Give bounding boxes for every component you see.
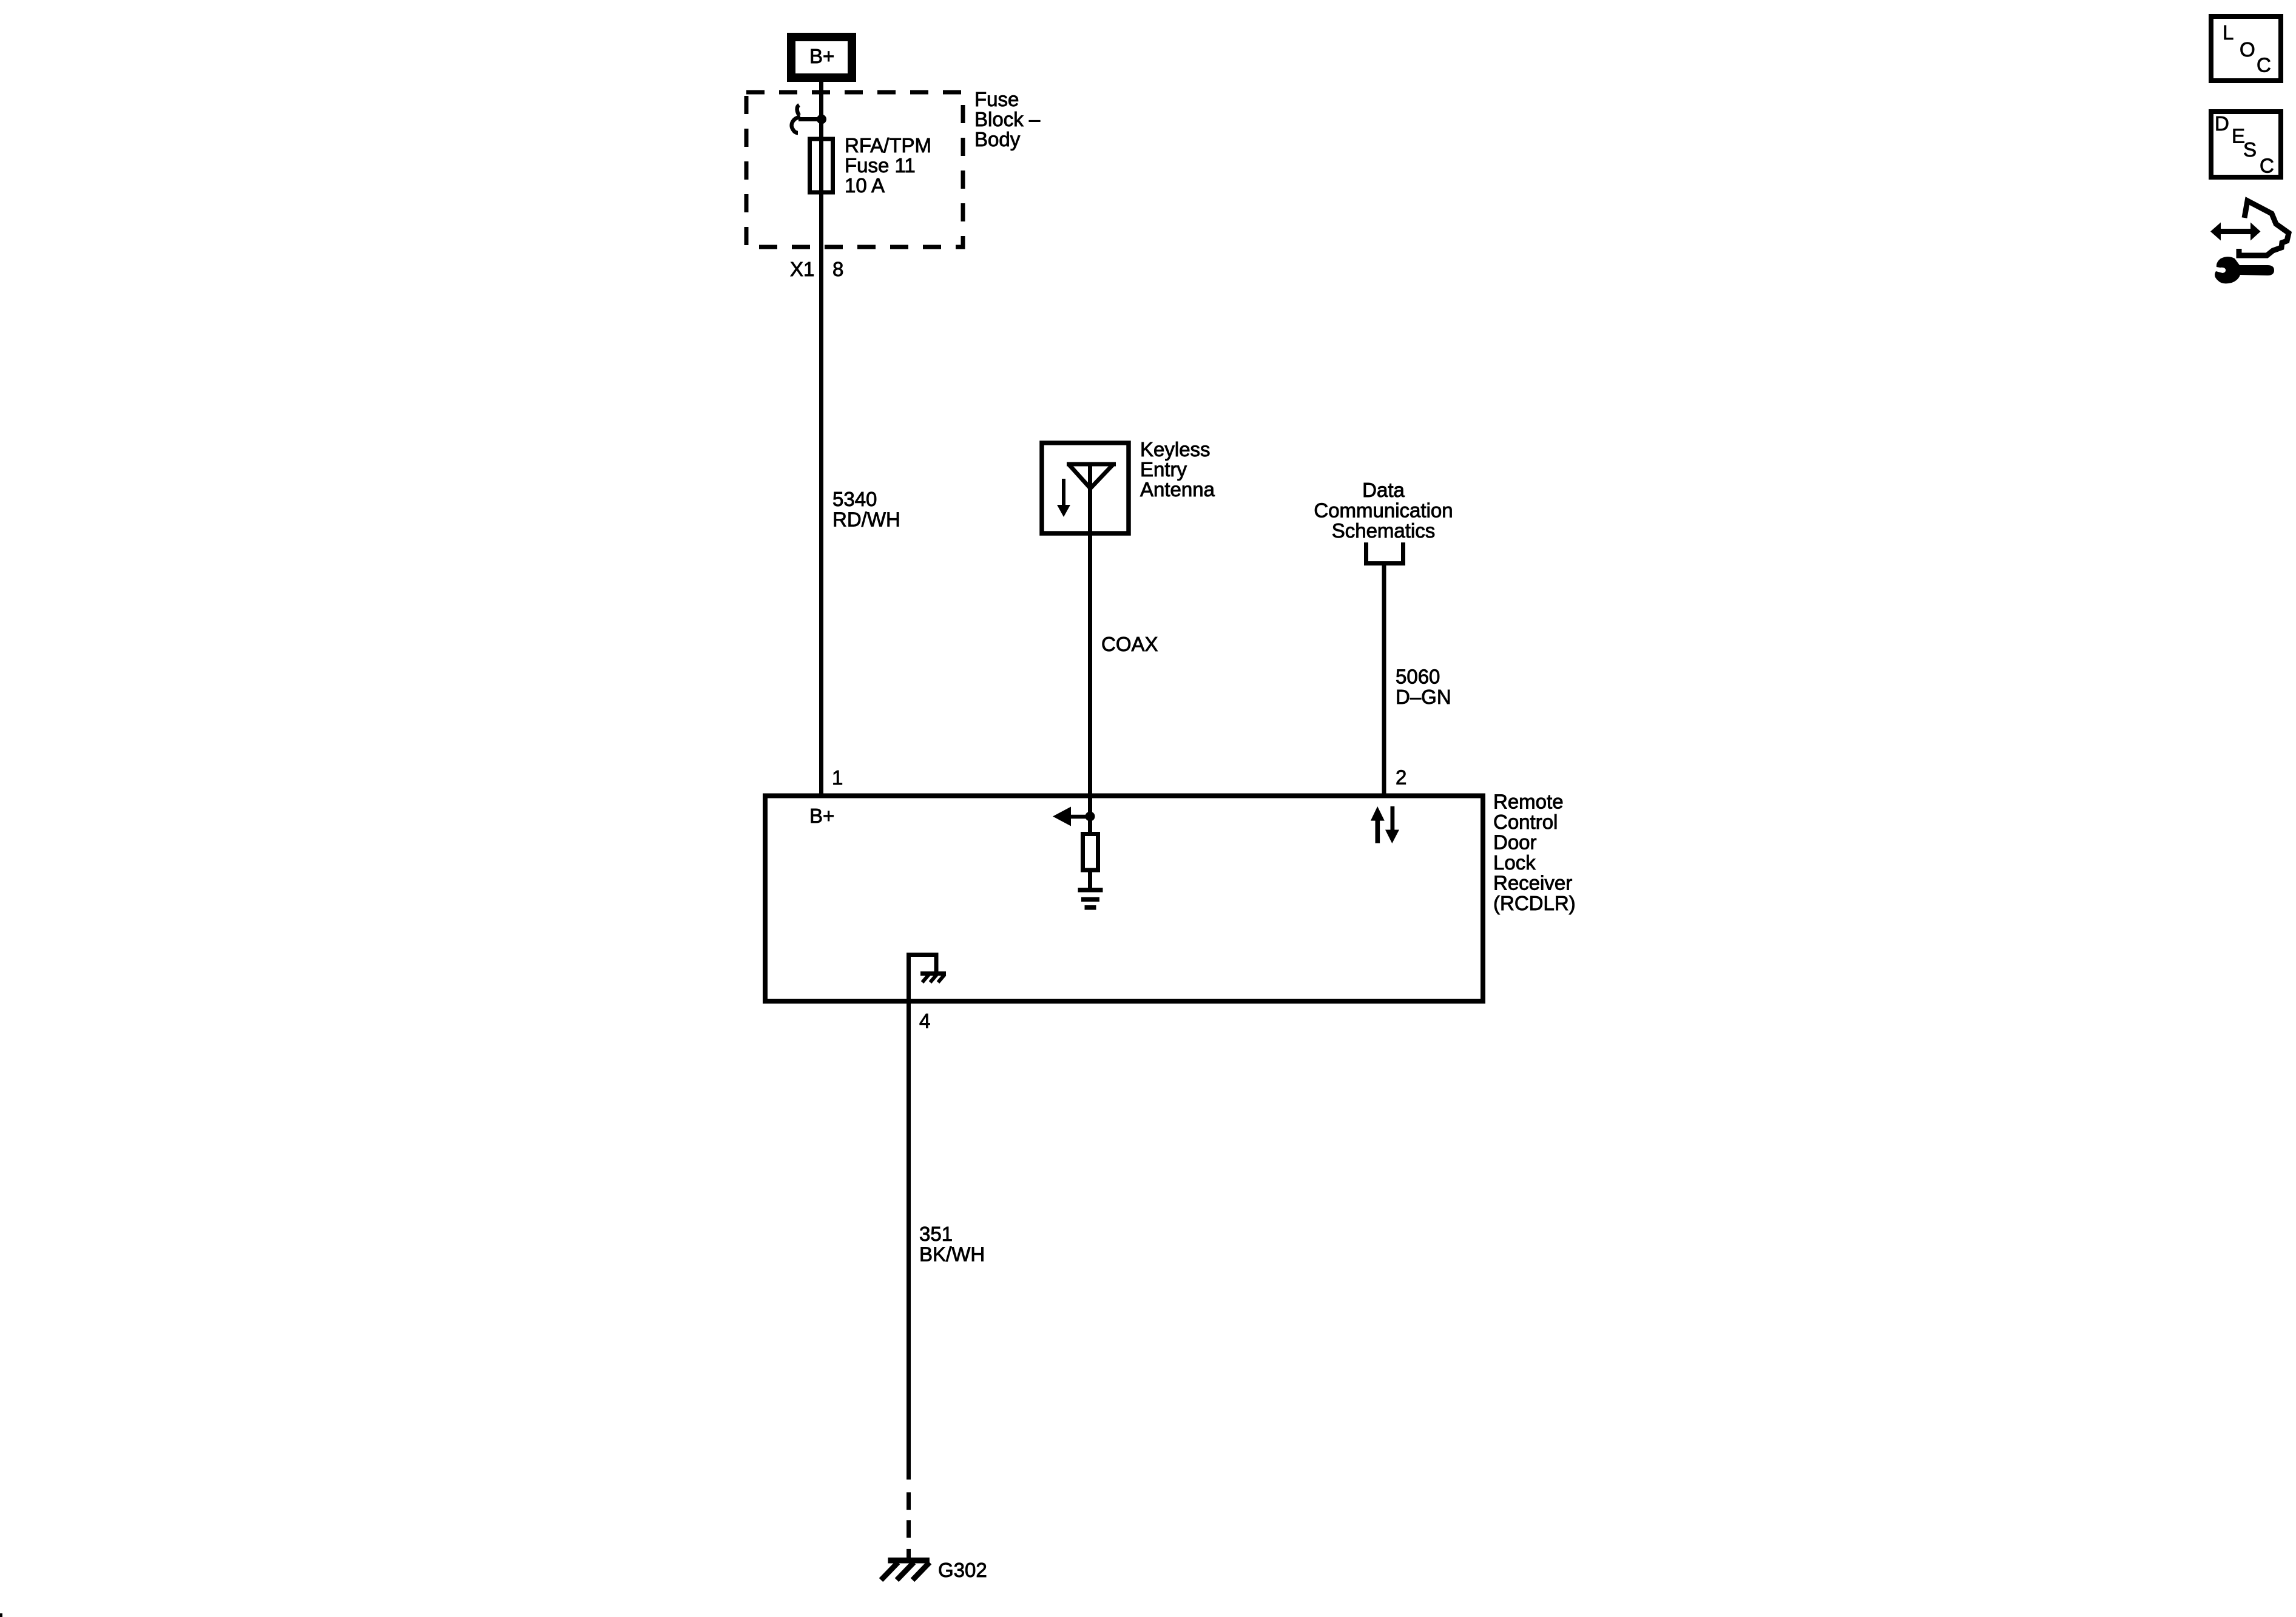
svg-text:B+: B+ bbox=[809, 45, 834, 67]
wire 5060 D-GN bbox=[1382, 563, 1386, 795]
svg-text:D: D bbox=[2215, 112, 2229, 135]
DESC reference box bbox=[2211, 112, 2281, 177]
signal ground internal bbox=[1078, 888, 1103, 910]
svg-text:Control: Control bbox=[1493, 811, 1558, 833]
fuse clip hook bbox=[792, 105, 800, 133]
fuse block label bbox=[974, 88, 1041, 150]
svg-text:C: C bbox=[2260, 155, 2274, 177]
serial data down arrow bbox=[1385, 806, 1399, 843]
junction dot fuse tap bbox=[817, 115, 826, 124]
svg-text:Schematics: Schematics bbox=[1332, 519, 1436, 542]
data communication schematics label bbox=[1314, 479, 1453, 542]
svg-text:Data: Data bbox=[1362, 479, 1405, 501]
svg-text:B+: B+ bbox=[809, 805, 834, 827]
svg-text:BK/WH: BK/WH bbox=[919, 1243, 985, 1266]
svg-text:Keyless: Keyless bbox=[1140, 438, 1210, 461]
antenna input arrow bbox=[1053, 807, 1089, 826]
svg-text:S: S bbox=[2243, 138, 2257, 161]
svg-text:Door: Door bbox=[1493, 831, 1537, 854]
svg-text:X1: X1 bbox=[790, 258, 814, 280]
off-page connector bracket bbox=[1366, 542, 1403, 564]
svg-text:O: O bbox=[2240, 38, 2255, 61]
RCDLR label bbox=[1493, 791, 1576, 915]
service icon connector outline bbox=[2239, 201, 2289, 255]
ground G302 bbox=[881, 1561, 930, 1580]
svg-text:G302: G302 bbox=[938, 1559, 987, 1581]
svg-text:2: 2 bbox=[1396, 766, 1406, 789]
junction dot antenna input bbox=[1086, 812, 1095, 822]
svg-text:Remote: Remote bbox=[1493, 791, 1564, 813]
svg-text:L: L bbox=[2223, 21, 2234, 44]
wire 351 BK/WH bbox=[907, 1001, 911, 1480]
svg-text:Communication: Communication bbox=[1314, 499, 1453, 522]
svg-text:4: 4 bbox=[919, 1010, 930, 1032]
svg-text:D–GN: D–GN bbox=[1396, 686, 1451, 708]
svg-text:Receiver: Receiver bbox=[1493, 872, 1572, 894]
svg-text:RFA/TPM: RFA/TPM bbox=[845, 134, 931, 157]
RCDLR module box bbox=[765, 796, 1483, 1002]
svg-text:5340: 5340 bbox=[832, 488, 877, 510]
chassis ground internal bbox=[920, 974, 946, 983]
svg-text:Fuse 11: Fuse 11 bbox=[845, 154, 916, 177]
service icon wrench bbox=[2215, 257, 2274, 283]
fuse RFA/TPM Fuse 11 10 A bbox=[810, 139, 833, 192]
svg-text:Antenna: Antenna bbox=[1140, 478, 1215, 501]
antenna label bbox=[1140, 438, 1215, 501]
svg-text:Lock: Lock bbox=[1493, 851, 1536, 874]
svg-text:5060: 5060 bbox=[1396, 666, 1440, 688]
wire dot to resistor bbox=[1088, 816, 1092, 834]
svg-text:(RCDLR): (RCDLR) bbox=[1493, 892, 1576, 914]
fuse value label bbox=[845, 134, 931, 197]
B+ power feed box bbox=[791, 37, 852, 78]
LOC reference box bbox=[2211, 16, 2281, 81]
antenna down arrow bbox=[1057, 479, 1070, 517]
internal ground path pin 4 bbox=[909, 955, 937, 1002]
wire 351 BK/WH label bbox=[919, 1223, 985, 1266]
svg-text:C: C bbox=[2257, 54, 2271, 76]
svg-text:Fuse: Fuse bbox=[974, 88, 1019, 110]
svg-text:Entry: Entry bbox=[1140, 458, 1187, 481]
page corner mark bbox=[0, 1613, 2, 1617]
wire antenna stem / COAX bbox=[1088, 464, 1092, 817]
keyless entry antenna box bbox=[1042, 443, 1129, 533]
svg-text:RD/WH: RD/WH bbox=[832, 508, 900, 531]
wire resistor to ground bbox=[1088, 870, 1092, 888]
fuse clip tap line bbox=[799, 117, 821, 121]
svg-text:1: 1 bbox=[832, 766, 843, 789]
wire dashed to G302 bbox=[907, 1492, 911, 1558]
wire 5340 RD/WH label bbox=[832, 488, 900, 531]
wire 5060 D-GN label bbox=[1396, 666, 1451, 709]
svg-text:COAX: COAX bbox=[1101, 633, 1158, 655]
wire B+ feed vertical bbox=[819, 78, 823, 795]
service icon double arrow bbox=[2210, 223, 2261, 241]
resistor internal bbox=[1083, 834, 1098, 871]
svg-text:Body: Body bbox=[974, 128, 1021, 150]
svg-text:8: 8 bbox=[832, 258, 843, 280]
fuse block dashed box bbox=[746, 92, 963, 247]
serial data up arrow bbox=[1371, 806, 1385, 843]
svg-text:Block –: Block – bbox=[974, 108, 1041, 130]
svg-text:10 A: 10 A bbox=[845, 174, 885, 197]
svg-text:351: 351 bbox=[919, 1223, 953, 1245]
antenna symbol bbox=[1067, 464, 1116, 490]
